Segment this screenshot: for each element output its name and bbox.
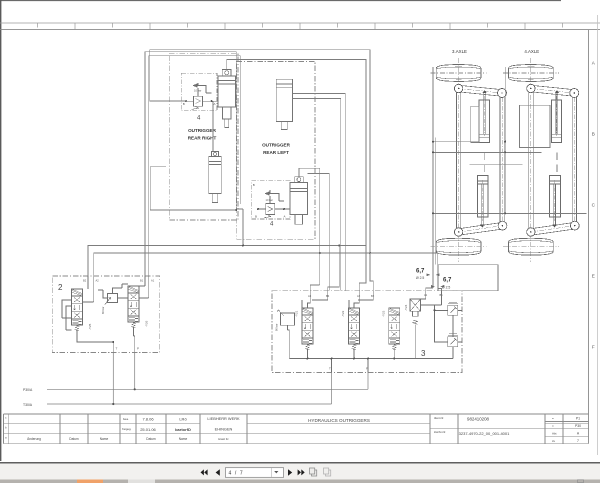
wire check loop RR <box>186 83 218 101</box>
svg-text:-Y26: -Y26 <box>145 320 149 327</box>
statusbar orange segment <box>77 480 103 483</box>
title block v-lines left <box>4 414 248 444</box>
wire relief pair to bus <box>452 347 454 359</box>
wire RR lower cylinder stub <box>212 101 214 151</box>
svg-text:4.AXLE: 4.AXLE <box>524 49 539 54</box>
toolbar top border <box>0 462 600 464</box>
wire RL upper cylinder second port <box>293 99 341 291</box>
svg-text:E: E <box>592 274 595 279</box>
wire check loop RL <box>258 190 290 209</box>
svg-text:OUTRIGGER: OUTRIGGER <box>262 143 291 148</box>
svg-text:3: 3 <box>421 349 426 358</box>
svg-text:bea.: bea. <box>123 417 129 421</box>
statusbar right icon <box>578 480 584 483</box>
svg-text:=: = <box>552 424 554 428</box>
wire susp bus middle <box>469 164 522 166</box>
junction dot RL B node <box>235 209 237 211</box>
svg-text:P30/A: P30/A <box>23 388 33 392</box>
copy-page icon 2 <box>324 468 331 476</box>
wire riser block3 P to P30 bus <box>367 373 369 390</box>
wire RL lower cylinder to A3 <box>299 168 320 290</box>
tire 4.axle top <box>503 65 559 82</box>
svg-text:Ø 2.5: Ø 2.5 <box>416 276 424 280</box>
nav first-page button <box>201 469 208 475</box>
cylinder RR upper head fitting <box>222 70 231 77</box>
proportional valve Y25 <box>72 289 83 331</box>
lowering brake valve RL <box>266 204 275 215</box>
wire ports into valves <box>308 291 442 308</box>
svg-text:B2: B2 <box>83 279 87 283</box>
wire susp cyl drop 4axle <box>556 152 558 172</box>
svg-text:P1: P1 <box>576 417 580 421</box>
frame inner top border <box>0 29 600 31</box>
nav prev-page button <box>216 469 220 475</box>
svg-text:A3: A3 <box>308 294 312 298</box>
wire Y25 left links <box>62 300 72 330</box>
wire T drop blk3 <box>331 359 333 373</box>
page number box <box>226 468 284 478</box>
svg-text:25.01.06: 25.01.06 <box>140 427 156 432</box>
cylinder RL lower head fitting <box>295 177 304 183</box>
nav last-page button <box>298 469 305 475</box>
wire bundle to A2 <box>359 246 366 291</box>
pilot valve box RR <box>181 73 217 111</box>
statusbar light segment <box>128 480 155 483</box>
copy-page icon 1 <box>310 468 317 476</box>
svg-text:T30/A: T30/A <box>23 403 33 407</box>
lowering brake valve RR <box>194 96 203 106</box>
sheet left edge <box>0 0 2 461</box>
junction dot solenoid-relief <box>434 309 436 311</box>
compensator arrow <box>105 297 111 304</box>
orifice arrows left <box>427 274 440 276</box>
directional valve Y22 <box>349 308 360 350</box>
svg-text:zu: zu <box>552 439 556 443</box>
cylinder RR lower head fitting <box>212 152 219 157</box>
svg-text:3.AXLE: 3.AXLE <box>452 49 467 54</box>
svg-text:B1: B1 <box>140 279 144 283</box>
wire Y21 to bus <box>307 350 309 359</box>
tire 3.axle top <box>431 65 487 82</box>
chassis frame box 4axle <box>520 105 551 147</box>
frame right border <box>588 30 590 444</box>
wire loop RR valve B over top <box>150 50 370 253</box>
wire bundle to B2 <box>370 253 373 291</box>
wire relief to box edge <box>458 310 462 342</box>
svg-text:Zeichn-Nr.: Zeichn-Nr. <box>434 430 446 434</box>
junction dots RL valve <box>257 208 259 210</box>
outrigger rear right label <box>188 128 217 141</box>
relief valve blk3 lower <box>448 334 458 347</box>
svg-text:LIEBHERR WERK: LIEBHERR WERK <box>207 416 240 421</box>
svg-text:-Y24: -Y24 <box>404 304 408 311</box>
junction dot block2 T <box>112 341 114 343</box>
wire susp top 3axle <box>433 141 479 143</box>
svg-text:B: B <box>255 215 257 219</box>
svg-text:T: T <box>329 367 331 371</box>
svg-text:B: B <box>592 132 595 137</box>
ruler tick marks <box>38 23 563 30</box>
row letters right margin <box>592 61 596 350</box>
wire RL valve B drop <box>242 209 244 246</box>
svg-text:A2: A2 <box>96 279 100 283</box>
svg-text:Name: Name <box>179 437 188 441</box>
wire riser block3 T to T30 bus <box>331 373 333 405</box>
svg-text:F: F <box>592 345 595 350</box>
svg-text:B2: B2 <box>371 294 375 298</box>
page dropdown divider <box>271 468 273 477</box>
valve block 2 enclosure <box>52 276 159 352</box>
nav next-page button <box>288 469 292 475</box>
wire Y25 outlet to T <box>77 331 113 353</box>
wire drop to B3 <box>328 246 339 291</box>
outrigger cylinder RR upper <box>218 76 235 128</box>
svg-text:A: A <box>214 102 216 106</box>
proportional valve Y26 <box>128 286 139 328</box>
wire susp bus upper <box>433 151 542 153</box>
check valve arrow RL <box>266 192 273 195</box>
junction dots axle wires <box>432 141 434 143</box>
svg-text:80 bar: 80 bar <box>101 307 105 314</box>
outrigger cylinder RL lower <box>290 183 308 225</box>
svg-text:7.8.06: 7.8.06 <box>142 417 154 422</box>
wire T30 bus <box>47 403 332 405</box>
wire inlet valve to bus <box>288 325 290 358</box>
ident cell divider <box>430 414 545 444</box>
wire susp bus lower <box>433 212 587 214</box>
svg-text:freigeg.: freigeg. <box>122 427 132 431</box>
toolbar background <box>0 464 600 480</box>
wire Y23 to bus <box>393 350 395 359</box>
pressure compensator <box>108 294 118 303</box>
inlet pressure valve blk3 <box>281 313 295 325</box>
svg-text:P: P <box>137 347 139 351</box>
svg-text:bartorfD: bartorfD <box>175 427 191 432</box>
junction dots RR valve <box>185 100 187 102</box>
wire block2 A2 to bus 255.5 <box>94 253 438 276</box>
wire compensator feed <box>113 284 129 294</box>
statusbar background <box>0 480 600 483</box>
wire P30 bus <box>47 388 368 390</box>
outrigger rear left enclosure <box>237 61 315 239</box>
wire Y26 outlet to P <box>134 328 135 353</box>
svg-text:HYDRAULICS OUTRIGGERS: HYDRAULICS OUTRIGGERS <box>308 418 370 423</box>
junction dot T drop <box>331 358 333 360</box>
wire Y26 inlet <box>139 276 149 298</box>
svg-text:-Y22: -Y22 <box>341 310 345 317</box>
svg-text:Ersatz für: Ersatz für <box>218 438 228 441</box>
wire relief pair link <box>452 315 454 337</box>
junction dot P drop <box>367 358 369 360</box>
junction dot loop-bus2 <box>369 252 371 254</box>
outrigger cylinder RL upper <box>276 79 292 129</box>
svg-text:Datum: Datum <box>146 437 156 441</box>
wire block2 A1 riser <box>149 56 241 276</box>
svg-text:6,7: 6,7 <box>443 278 452 284</box>
svg-text:REAR LEFT: REAR LEFT <box>263 150 289 155</box>
sheet top edge <box>0 0 561 2</box>
wire RR lower cylinder side port loop <box>150 167 236 210</box>
svg-text:Datum: Datum <box>69 437 79 441</box>
wire P drop blk3 <box>367 359 369 373</box>
wire Y25 inlet <box>83 276 94 302</box>
wire riser block2 P to P30 bus <box>134 352 136 389</box>
wire RL lower cylinder second port <box>308 174 330 291</box>
svg-text:3237-4970-22_00_001-4001: 3237-4970-22_00_001-4001 <box>459 431 510 436</box>
wire block2 B1 to RL valve B <box>145 52 243 276</box>
junction dot bus2 <box>319 252 321 254</box>
junction dot T bus <box>112 403 114 405</box>
svg-text:LRö: LRö <box>179 417 187 422</box>
svg-text:Ident-Nr.: Ident-Nr. <box>434 416 444 420</box>
svg-text:Abt: Abt <box>552 431 557 435</box>
relief valve blk3 upper <box>448 302 458 315</box>
check valve arrow RR <box>194 84 201 87</box>
axle assembly 3 <box>454 58 507 262</box>
svg-text:982410208: 982410208 <box>467 417 490 422</box>
svg-text:B: B <box>253 183 255 187</box>
side plate 3axle <box>471 106 479 142</box>
outrigger cylinder RR lower <box>209 157 222 203</box>
svg-text:-Y23: -Y23 <box>381 310 385 317</box>
wire chassis vertical 4axle <box>504 67 506 213</box>
svg-text:REAR RIGHT: REAR RIGHT <box>188 136 217 141</box>
chassis frame line 3axle <box>434 138 436 265</box>
svg-text:B: B <box>183 102 185 106</box>
junction dot P bus <box>134 388 136 390</box>
svg-text:A: A <box>284 215 286 219</box>
frame upper ruler line <box>0 22 600 24</box>
solenoid shutoff valve Y24 <box>410 299 421 311</box>
svg-text:10 bar: 10 bar <box>266 198 273 202</box>
svg-text:P30: P30 <box>575 424 581 428</box>
directional valve Y21 <box>302 308 313 350</box>
svg-text:-Y21: -Y21 <box>295 310 299 317</box>
wire Y21 cross link <box>302 300 349 308</box>
outrigger rear left label <box>262 143 291 156</box>
tire 4.axle bottom <box>503 238 559 255</box>
svg-text:OUTRIGGER: OUTRIGGER <box>188 128 217 133</box>
wire riser block2 T to T30 bus <box>112 352 114 404</box>
svg-text:80 bar: 80 bar <box>275 324 279 331</box>
svg-text:Änderung: Änderung <box>27 437 41 441</box>
tire 3.axle bottom <box>431 238 487 255</box>
wire Y22 to bus <box>353 350 355 359</box>
sheet right outer edge <box>597 15 599 455</box>
wire loop RR cylinder head over top <box>227 59 366 245</box>
svg-text:-Y25: -Y25 <box>88 323 92 330</box>
svg-text:4 / 7: 4 / 7 <box>229 470 244 476</box>
wire axle trunk left <box>426 67 433 291</box>
wire compensator to Y26 <box>98 290 128 298</box>
svg-text:EHINGEN: EHINGEN <box>215 427 233 432</box>
svg-text:7: 7 <box>577 439 579 443</box>
wire solenoid to relief <box>421 305 448 342</box>
junction dot bus1 <box>338 245 340 247</box>
wire RL upper cylinder side port <box>293 94 346 291</box>
svg-text:T: T <box>116 347 118 351</box>
axle assembly 4 <box>527 58 580 262</box>
wire block2 B2 to bus 248.7 <box>88 246 366 277</box>
wire susp cyl drop 3axle <box>484 152 486 172</box>
svg-text:=: = <box>552 417 554 421</box>
pilot valve box RL <box>252 181 290 219</box>
svg-text:2: 2 <box>58 283 63 292</box>
junction dots blk3 bus <box>307 358 309 360</box>
orifice annotation box <box>438 265 498 291</box>
directional valve Y23 <box>389 308 400 350</box>
wire axle trunk right pair <box>438 253 442 291</box>
svg-text:6,7: 6,7 <box>416 269 425 275</box>
right mini table <box>545 414 589 444</box>
valve block 3 enclosure <box>272 291 462 373</box>
wire Y24 to bus <box>414 325 416 359</box>
svg-text:A1: A1 <box>151 279 155 283</box>
wire blk3 bottom bus <box>289 358 453 360</box>
page dropdown arrow <box>274 471 278 473</box>
title block h-lines <box>4 414 589 444</box>
outrigger rear right enclosure <box>169 53 238 220</box>
svg-text:A2: A2 <box>357 294 361 298</box>
svg-text:Name: Name <box>100 437 109 441</box>
